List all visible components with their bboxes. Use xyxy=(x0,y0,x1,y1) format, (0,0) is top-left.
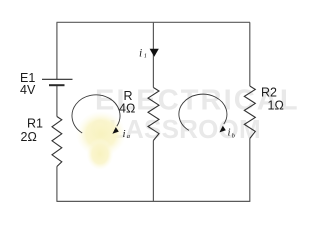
svg-text:i: i xyxy=(123,128,126,140)
wire left lower xyxy=(56,167,58,202)
wire top xyxy=(57,21,251,23)
wire right lower xyxy=(249,139,251,202)
mesh loop arrow ib xyxy=(179,94,227,130)
svg-text:i: i xyxy=(228,127,231,139)
resistor R zigzag xyxy=(148,88,159,141)
svg-text:4V: 4V xyxy=(20,83,36,97)
resistor R2 zigzag xyxy=(244,86,255,139)
battery E1 long plate xyxy=(42,78,73,80)
watermark bulb base xyxy=(87,138,114,170)
wire middle upper xyxy=(152,22,154,87)
watermark bulb glow xyxy=(76,111,126,157)
svg-text:a: a xyxy=(127,133,130,140)
svg-text:i: i xyxy=(139,48,142,60)
current arrow i1 on middle wire xyxy=(150,49,159,57)
resistor R1 zigzag xyxy=(52,117,62,167)
svg-text:2Ω: 2Ω xyxy=(21,130,37,144)
svg-text:R2: R2 xyxy=(261,86,277,100)
battery E1 short plate xyxy=(49,84,65,86)
svg-text:1: 1 xyxy=(144,53,147,60)
wire left upper xyxy=(56,22,58,79)
wire middle lower xyxy=(152,141,154,202)
wire left middle xyxy=(56,85,58,116)
svg-text:1Ω: 1Ω xyxy=(268,99,284,113)
svg-text:4Ω: 4Ω xyxy=(119,102,135,116)
wire bottom xyxy=(57,200,251,202)
mesh loop arrow ia xyxy=(72,95,120,134)
svg-text:R1: R1 xyxy=(27,117,43,131)
wire right upper xyxy=(249,22,251,86)
